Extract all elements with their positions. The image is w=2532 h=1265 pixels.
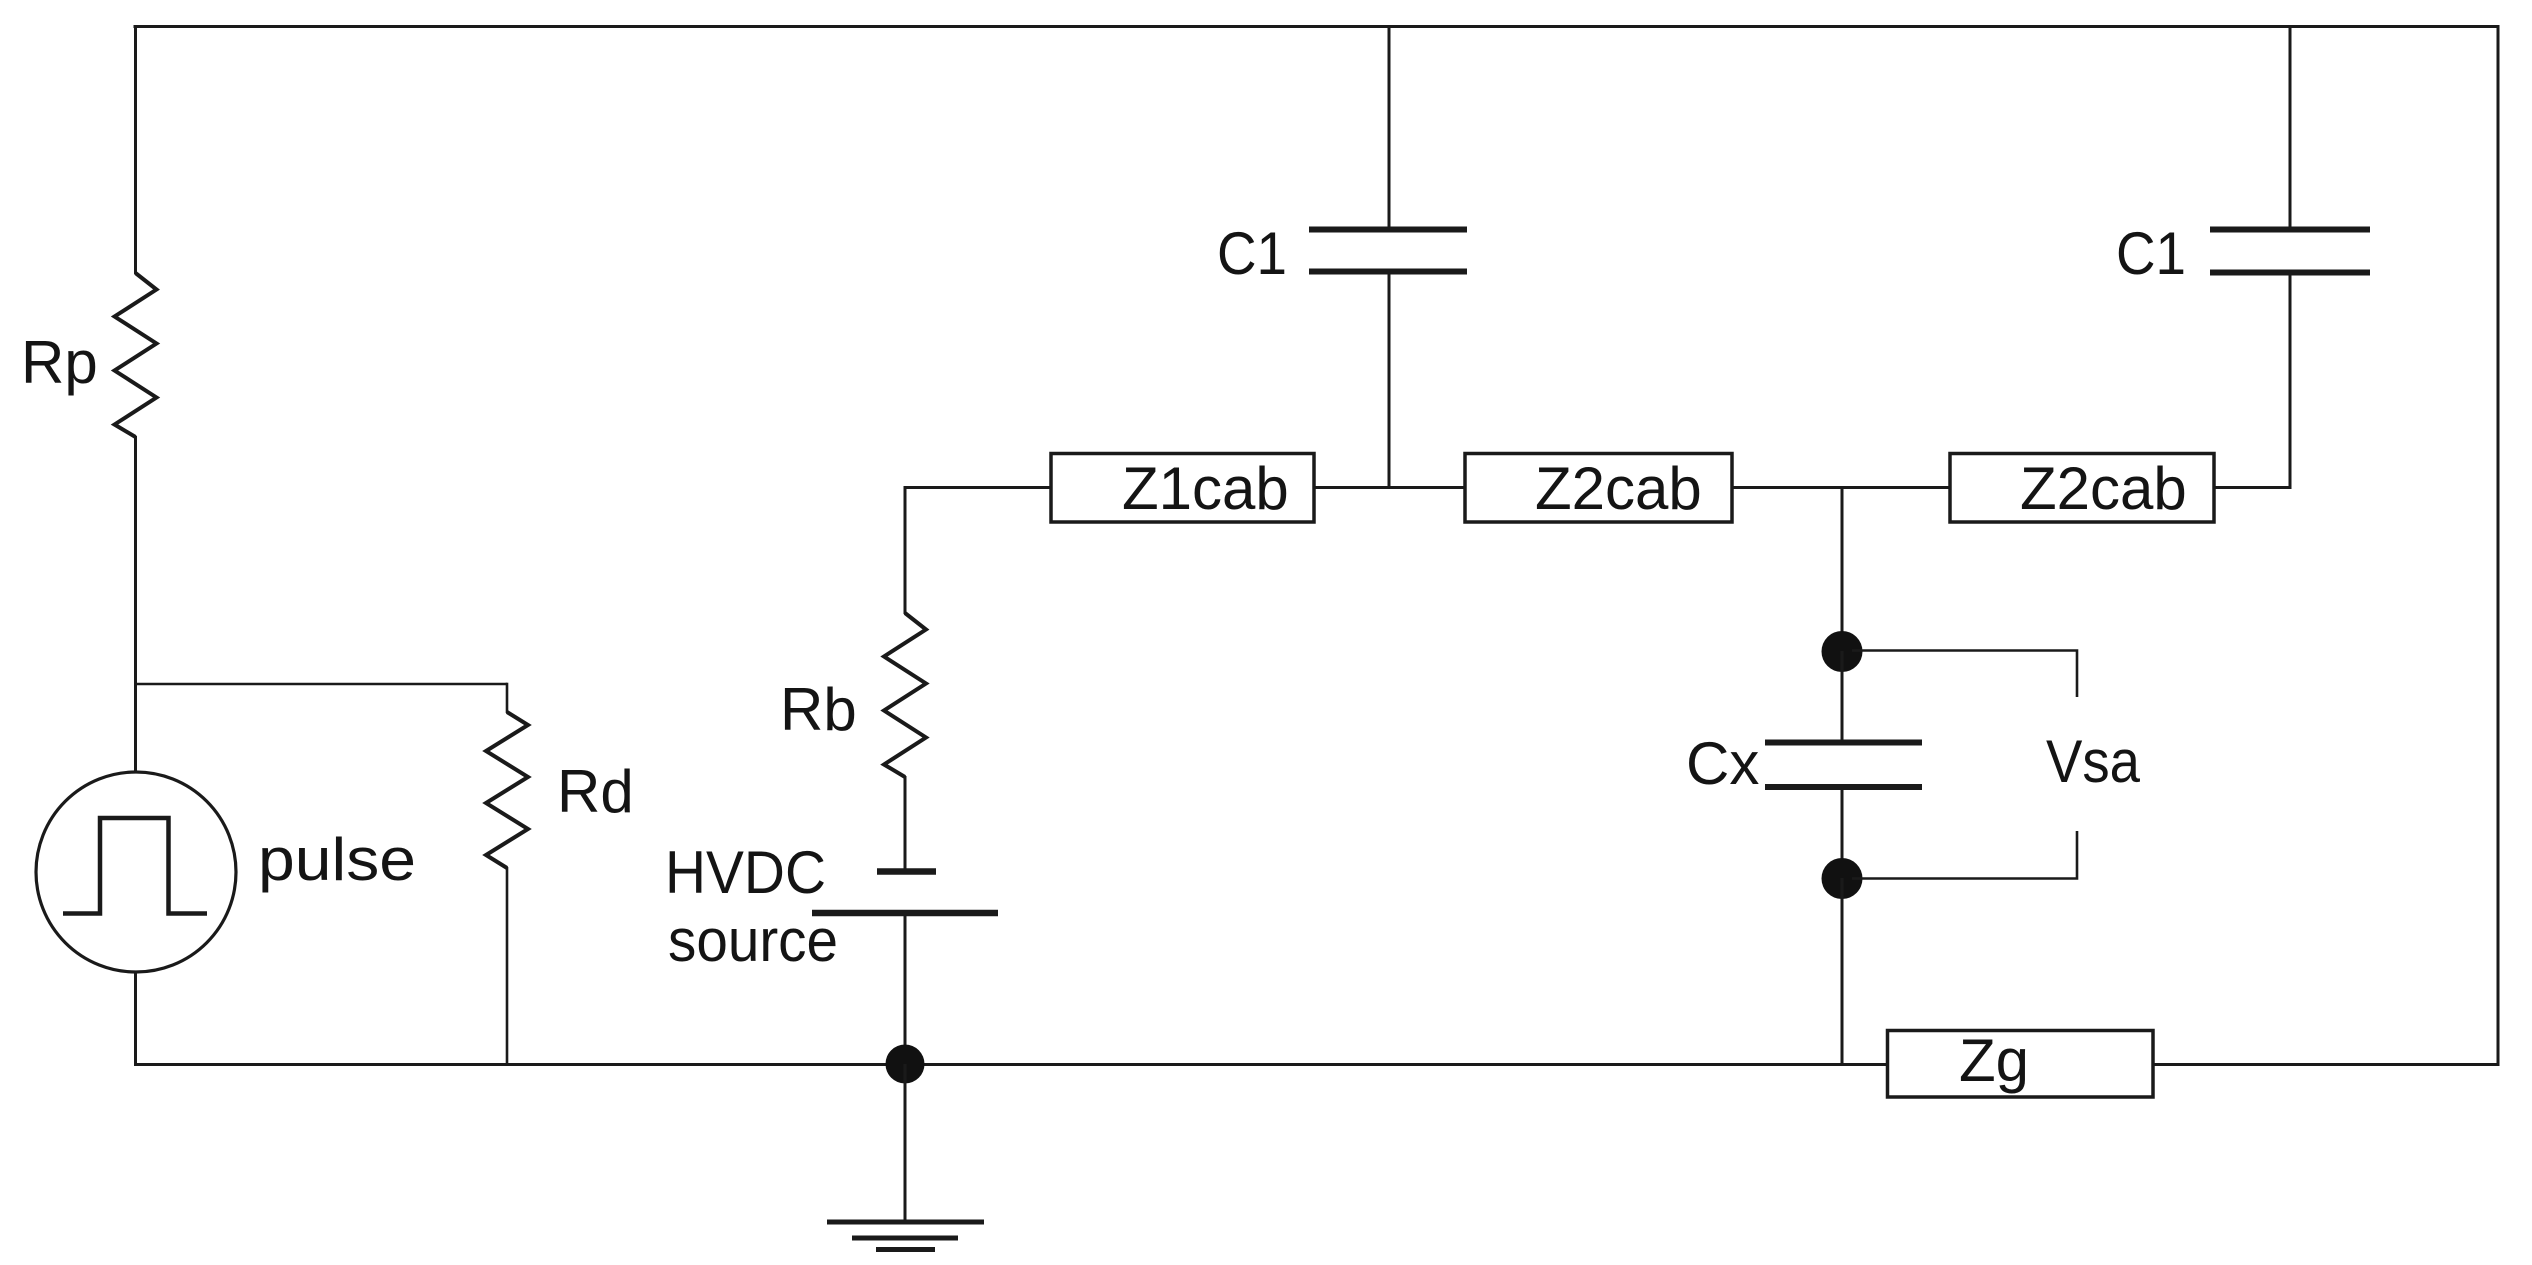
pulse source circle xyxy=(36,772,236,972)
capacitor Cx plate bottom xyxy=(1765,784,1922,790)
junction dot upper xyxy=(1822,631,1863,672)
ground bar 3 xyxy=(876,1247,935,1252)
wire Rb vertical upper xyxy=(904,486,907,614)
wire bottom horizontal right xyxy=(2152,1063,2500,1066)
wire Rd vertical lower xyxy=(506,867,509,1064)
wire Z2cab2 to C1 right xyxy=(2214,486,2290,489)
ground stem xyxy=(904,1064,907,1222)
svg-text:Z1cab: Z1cab xyxy=(1122,455,1289,522)
ground bar 1 xyxy=(827,1220,984,1225)
wire left vertical middle xyxy=(134,436,137,773)
wire left vertical upper xyxy=(134,25,137,274)
capacitor C1 left plate top xyxy=(1309,227,1467,233)
Vsa bracket bottom xyxy=(1852,831,2077,879)
wire Rb to battery xyxy=(904,776,907,871)
svg-text:Rp: Rp xyxy=(21,329,98,396)
svg-text:C1: C1 xyxy=(1217,220,1287,287)
wire dot to Cx xyxy=(1841,651,1844,743)
svg-text:Vsa: Vsa xyxy=(2046,728,2141,795)
svg-text:Zg: Zg xyxy=(1959,1027,2029,1094)
wire Z1cab to Z2cab xyxy=(1314,486,1465,489)
impedance Zg box xyxy=(1888,1031,2154,1098)
svg-text:source: source xyxy=(668,907,838,974)
capacitor C1 right lead upper xyxy=(2289,26,2292,229)
wire Z2cab to Z2cab xyxy=(1732,486,1950,489)
wire right vertical xyxy=(2497,25,2500,1066)
wire Rd top horizontal xyxy=(136,683,508,686)
wire left vertical lower xyxy=(134,971,137,1064)
wire mid horizontal to Z1cab xyxy=(905,486,1051,489)
wire battery to ground node xyxy=(904,913,907,1064)
resistor Rd xyxy=(486,712,528,868)
wire Rd vertical upper xyxy=(506,683,509,713)
capacitor C1 left plate bottom xyxy=(1309,269,1467,275)
capacitor C1 left lead upper xyxy=(1388,26,1391,229)
wire node branch vertical xyxy=(1841,488,1844,653)
resistor Rp xyxy=(115,273,157,437)
capacitor C1 left lead lower xyxy=(1388,272,1391,489)
svg-text:C1: C1 xyxy=(2116,220,2186,287)
pulse waveform xyxy=(63,818,207,914)
junction dot lower xyxy=(1822,858,1863,899)
svg-text:Rd: Rd xyxy=(557,758,634,825)
junction dot ground node xyxy=(886,1045,925,1084)
svg-text:Z2cab: Z2cab xyxy=(1535,455,1702,522)
wire lower dot to bottom xyxy=(1841,878,1844,1064)
svg-text:Cx: Cx xyxy=(1686,730,1759,797)
capacitor C1 right plate top xyxy=(2210,227,2370,233)
Vsa bracket top xyxy=(1852,651,2077,698)
svg-text:Z2cab: Z2cab xyxy=(2020,455,2187,522)
capacitor C1 right plate bottom xyxy=(2210,270,2370,276)
wire Cx to lower dot xyxy=(1841,787,1844,879)
battery HVDC source plate short xyxy=(877,868,936,875)
battery HVDC source plate long xyxy=(812,910,998,917)
svg-text:HVDC: HVDC xyxy=(665,839,826,906)
svg-text:Rb: Rb xyxy=(780,676,857,743)
wire bottom horizontal left xyxy=(134,1063,1888,1066)
capacitor C1 right lead lower xyxy=(2289,272,2292,489)
svg-text:pulse: pulse xyxy=(258,826,416,893)
impedance Z2cab box first xyxy=(1465,454,1732,523)
impedance Z2cab box second xyxy=(1950,454,2214,523)
capacitor Cx plate top xyxy=(1765,740,1922,746)
ground bar 2 xyxy=(852,1236,958,1241)
resistor Rb xyxy=(884,613,926,777)
wire top horizontal xyxy=(134,25,2500,28)
impedance Z1cab box xyxy=(1051,454,1314,523)
